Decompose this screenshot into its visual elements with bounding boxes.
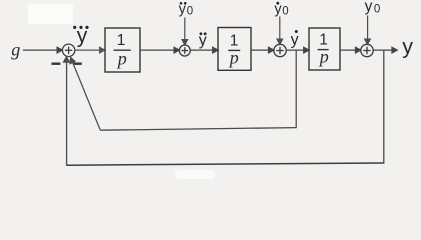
inner feedback wire horizontal xyxy=(100,128,296,131)
wire y-ddot-0 into S2 top xyxy=(182,18,188,45)
wire S3 to block B3 xyxy=(286,47,309,53)
summing junction S2 xyxy=(179,45,190,56)
wire B1 to summing junction S2 xyxy=(140,47,179,53)
takeoff wire from y-dot node down (inner feedback) xyxy=(295,50,297,128)
svg-text:g: g xyxy=(11,40,20,60)
wire S2 to block B2 xyxy=(190,47,218,53)
integrator block B2 (1/p) xyxy=(218,28,251,71)
svg-text:y: y xyxy=(77,25,88,48)
svg-text:y: y xyxy=(291,31,299,48)
outer feedback wire bottom xyxy=(66,163,384,165)
wire S1 to block B1 xyxy=(75,47,105,53)
svg-text:y: y xyxy=(402,34,413,58)
svg-text:1: 1 xyxy=(117,32,126,49)
svg-text:y: y xyxy=(365,0,373,15)
outer feedback wire left vertical into S1 xyxy=(64,57,70,165)
wire y0 into S4 top xyxy=(365,16,371,45)
node label y-ddot-0 (initial condition above S2) xyxy=(179,1,194,17)
wire g to summing junction S1 xyxy=(23,47,62,53)
node label y-tripledot above S1 output xyxy=(73,25,89,48)
minus sign left of S1 bottom xyxy=(52,63,61,65)
wire y-dot-0 into S3 top xyxy=(277,17,283,45)
node label y-dot-0 (initial condition above S3) xyxy=(274,1,288,17)
svg-text:y: y xyxy=(199,32,207,49)
svg-text:p: p xyxy=(116,48,127,68)
summing junction S3 xyxy=(274,44,286,56)
takeoff wire from output y down (outer feedback) xyxy=(383,50,385,163)
integrator block B3 (1/p) xyxy=(309,28,340,70)
node label y0 (initial condition above S4) xyxy=(365,0,381,15)
svg-text:y: y xyxy=(274,1,282,17)
output wire S4 to y xyxy=(373,47,397,53)
svg-text:p: p xyxy=(318,46,329,66)
svg-text:y: y xyxy=(179,1,187,17)
node label y-ddot above wire after S2 xyxy=(199,32,207,49)
svg-text:0: 0 xyxy=(187,5,193,17)
wire B3 to summing junction S4 xyxy=(340,47,361,53)
svg-text:p: p xyxy=(228,48,239,68)
summing junction S1 xyxy=(62,44,74,56)
summing junction S4 xyxy=(361,44,373,56)
minus sign right of S1 bottom xyxy=(73,63,82,65)
integrator block B1 (1/p) xyxy=(105,28,140,72)
node label y-dot above wire after S3 xyxy=(291,30,299,48)
inner feedback wire diagonal into S1 xyxy=(70,57,100,130)
svg-text:0: 0 xyxy=(374,3,380,15)
svg-text:0: 0 xyxy=(282,5,288,17)
wire B2 to summing junction S3 xyxy=(251,47,274,53)
